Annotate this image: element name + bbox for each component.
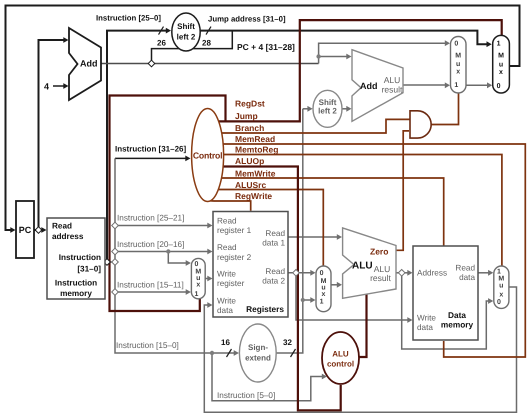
svg-text:register 1: register 1 (217, 226, 252, 235)
svg-text:Zero: Zero (370, 247, 388, 257)
svg-text:16: 16 (221, 338, 230, 347)
svg-text:register: register (217, 279, 245, 288)
svg-text:control: control (327, 360, 354, 369)
svg-text:Instruction [25–0]: Instruction [25–0] (96, 14, 161, 23)
svg-text:register 2: register 2 (217, 253, 252, 262)
svg-text:u: u (456, 61, 460, 68)
svg-text:data: data (217, 306, 233, 315)
svg-text:MemRead: MemRead (235, 134, 275, 144)
svg-text:x: x (499, 292, 503, 299)
svg-text:u: u (499, 283, 503, 290)
svg-text:Address: Address (417, 269, 447, 278)
svg-text:Shift: Shift (177, 22, 195, 31)
svg-text:address: address (52, 232, 84, 241)
svg-text:1: 1 (320, 299, 324, 306)
svg-text:Write: Write (217, 270, 236, 279)
svg-text:0: 0 (194, 261, 198, 268)
svg-text:1: 1 (497, 41, 501, 48)
svg-text:Write: Write (417, 314, 436, 323)
svg-text:Data: Data (448, 310, 466, 320)
svg-text:Instruction [5–0]: Instruction [5–0] (217, 391, 275, 400)
svg-text:Add: Add (360, 81, 378, 91)
svg-text:Sign-: Sign- (248, 343, 268, 352)
svg-text:Jump: Jump (235, 111, 258, 121)
svg-text:Instruction [15–0]: Instruction [15–0] (116, 341, 179, 350)
svg-text:Add: Add (80, 59, 98, 69)
svg-text:PC: PC (19, 225, 32, 235)
svg-text:MemWrite: MemWrite (235, 169, 276, 179)
svg-text:Instruction [15–11]: Instruction [15–11] (117, 281, 184, 290)
svg-text:ALUOp: ALUOp (235, 156, 264, 166)
svg-text:0: 0 (454, 41, 458, 48)
svg-text:Instruction [31–26]: Instruction [31–26] (115, 145, 186, 154)
svg-text:1: 1 (454, 82, 458, 89)
svg-text:[31–0]: [31–0] (77, 265, 101, 274)
svg-text:u: u (499, 61, 503, 68)
svg-text:data: data (417, 323, 433, 332)
svg-text:data: data (459, 273, 475, 282)
svg-text:28: 28 (202, 39, 211, 48)
svg-text:ALU: ALU (352, 261, 373, 272)
svg-text:PC + 4 [31–28]: PC + 4 [31–28] (237, 42, 295, 52)
svg-text:Read: Read (265, 267, 285, 276)
svg-text:x: x (499, 69, 503, 76)
svg-text:ALUSrc: ALUSrc (235, 180, 266, 190)
svg-text:0: 0 (497, 83, 501, 90)
svg-text:Write: Write (217, 297, 236, 306)
svg-text:result: result (382, 85, 403, 95)
svg-text:x: x (322, 291, 326, 298)
svg-text:Instruction: Instruction (55, 279, 97, 288)
svg-text:Read: Read (52, 222, 72, 231)
svg-text:left 2: left 2 (318, 107, 337, 116)
svg-text:32: 32 (283, 338, 292, 347)
svg-text:data 1: data 1 (262, 239, 285, 248)
svg-text:0: 0 (320, 270, 324, 277)
svg-text:data 2: data 2 (262, 277, 285, 286)
svg-text:ALU: ALU (332, 350, 349, 359)
svg-text:extend: extend (245, 354, 271, 363)
svg-text:MemtoReg: MemtoReg (235, 145, 278, 155)
svg-text:memory: memory (60, 289, 92, 298)
svg-text:Branch: Branch (235, 123, 264, 133)
svg-text:4: 4 (44, 82, 49, 92)
svg-text:26: 26 (157, 39, 166, 48)
svg-text:1: 1 (194, 291, 198, 298)
svg-text:x: x (456, 69, 460, 76)
svg-text:Instruction: Instruction (59, 253, 101, 262)
svg-text:1: 1 (497, 269, 501, 276)
svg-text:memory: memory (441, 320, 474, 330)
svg-text:ALU: ALU (384, 75, 401, 85)
svg-text:Read: Read (455, 264, 475, 273)
svg-text:Read: Read (217, 217, 237, 226)
svg-text:Instruction [25–21]: Instruction [25–21] (117, 214, 184, 223)
svg-text:x: x (196, 282, 200, 289)
svg-text:Jump address [31–0]: Jump address [31–0] (208, 15, 286, 24)
svg-text:left 2: left 2 (177, 33, 196, 42)
svg-text:Registers: Registers (246, 304, 284, 314)
svg-text:M: M (455, 53, 461, 60)
svg-text:Instruction [20–16]: Instruction [20–16] (117, 240, 184, 249)
svg-text:M: M (498, 53, 504, 60)
svg-text:M: M (498, 276, 504, 283)
svg-text:result: result (370, 273, 391, 283)
svg-text:Read: Read (217, 243, 237, 252)
svg-text:Control: Control (193, 151, 222, 161)
svg-text:0: 0 (497, 299, 501, 306)
svg-text:RegWrite: RegWrite (235, 191, 272, 201)
svg-text:RegDst: RegDst (235, 99, 265, 109)
svg-text:Read: Read (265, 229, 285, 238)
